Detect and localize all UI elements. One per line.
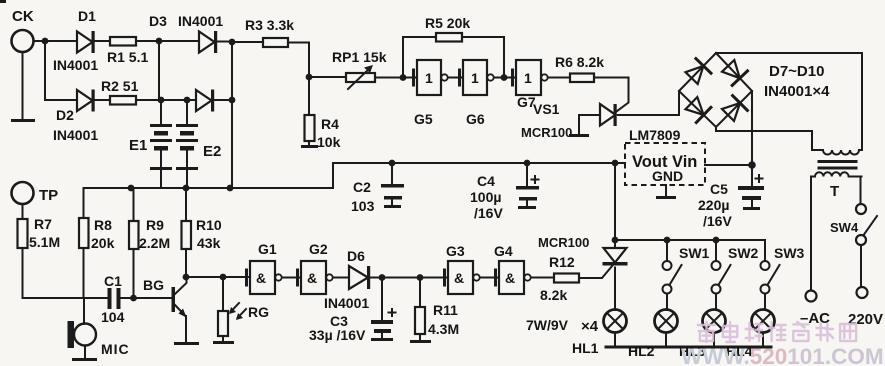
gate G2 [298,261,333,294]
ground bar under RG [213,341,234,344]
svg-text:G5: G5 [414,111,433,127]
svg-text:VS1: VS1 [533,101,560,117]
svg-text:E2: E2 [203,143,221,160]
wire C3 to ground [381,333,383,338]
resistor R7 [18,219,28,248]
svg-text:D6: D6 [347,248,365,264]
resistor R10 [182,221,192,249]
transformer T core [819,162,856,169]
node junction rail x186 [183,185,190,192]
diode D6 [349,266,368,289]
svg-text:CK: CK [12,8,34,25]
node junction rail x230 [227,185,234,192]
wire G2 to D6 [333,277,349,279]
resistor R11 lead [419,278,421,308]
diode D9 bottom-left [686,97,711,123]
node junction G6 output [501,74,508,81]
gate G6 [460,60,494,95]
node junction SW2 [713,237,720,244]
svg-text:R5 20k: R5 20k [425,15,470,31]
svg-text:G4: G4 [494,243,513,259]
svg-text:R10: R10 [196,217,222,233]
svg-text:1: 1 [471,70,479,86]
battery E2 [176,100,198,188]
svg-text:G6: G6 [466,111,485,127]
wire collector to G1 [186,276,250,278]
svg-text:HL1: HL1 [572,340,599,356]
svg-text:&: & [256,270,266,286]
wire supply rail y188 [84,187,334,189]
resistor R9 top lead [133,188,135,221]
svg-text:R1 5.1: R1 5.1 [107,49,148,65]
wire MIC to ground [84,346,86,359]
thyristor VS2 [603,248,628,310]
capacitor C2 [381,184,404,188]
wire D3 to node [218,41,232,43]
capacitor C3 plus sign [389,309,396,316]
svg-text:R9: R9 [146,217,164,233]
regulator U1 LM7809 dashed box [625,143,705,185]
wire D2 to R2 [95,99,110,101]
gate G1 [247,261,282,294]
wire primary right to SW4 [860,177,862,205]
resistor R5 [436,33,462,42]
svg-text:GND: GND [652,168,683,184]
node junction rail x131 [128,185,135,192]
svg-text:SW3: SW3 [774,245,805,261]
svg-text:BG: BG [143,277,164,293]
ground bar under CK [11,119,35,122]
svg-text:10k: 10k [317,134,341,150]
wire R7 down and right to C1 [23,248,109,298]
svg-text:IN4001: IN4001 [324,295,369,311]
resistor R12 [554,274,579,283]
wire D1 to R1 [95,40,110,42]
node junction C3 top [379,274,386,281]
node junction x232 top row [229,39,236,46]
lamp HL1 [604,310,627,348]
ground bar under R11 [410,340,431,343]
wire R4 to ground [308,141,310,145]
watermark chinese [698,322,856,342]
ground bar under LM7809 [656,196,676,199]
wire rail step up to +9V bus [333,163,625,188]
capacitor C3 lead [381,278,383,321]
svg-text:IN4001: IN4001 [53,57,98,73]
gate G7 [513,60,548,95]
bridge diamond wires [679,53,752,127]
resistor R6 [570,74,594,83]
svg-text:43k: 43k [197,235,221,251]
diode D7 top-left [686,59,712,84]
capacitor C4 lead [526,163,528,186]
wire G1 to G2 [282,277,301,279]
battery E1 [150,100,172,188]
node junction R9 bottom [130,295,137,302]
wire TP to R7 [22,205,24,220]
resistor R1 [110,37,136,46]
wire G3 to G4 [480,277,499,279]
wire feedback left leg [403,37,436,78]
svg-text:IN4001: IN4001 [178,13,223,29]
svg-text:×4: ×4 [581,318,599,335]
svg-text:WWW.520101.COM: WWW.520101.COM [681,344,884,366]
svg-text:R12: R12 [549,254,575,270]
wire CK to D1 [34,40,76,42]
svg-text:R2 51: R2 51 [101,78,139,94]
svg-text:SW4: SW4 [830,220,859,235]
svg-text:/16V: /16V [474,205,503,221]
terminal CK [12,30,34,52]
svg-text:E1: E1 [129,137,147,154]
svg-text:R6 8.2k: R6 8.2k [555,54,604,70]
wire RG to ground [222,336,224,341]
svg-text:R7: R7 [34,216,52,232]
wire RP1 to G5 [375,77,416,79]
resistor R8 [79,218,89,248]
diode D8 top-right [722,60,748,85]
transformer T secondary coil [812,150,862,155]
wire D6 to G3 [370,277,448,279]
gate G4 [496,261,531,294]
svg-text:D3: D3 [149,13,167,29]
wire GND pin to ground [665,185,667,196]
transistor BG [172,277,187,342]
wire R3 right then down to RP1 row [288,43,309,78]
svg-text:C1: C1 [104,273,122,289]
resistor R2 [110,96,136,105]
wire C1 to base node [121,297,172,299]
photoresistor RG [218,311,228,336]
wire R1 to node [136,40,159,42]
svg-text:7W/9V: 7W/9V [526,317,569,333]
svg-text:HL2: HL2 [628,343,655,359]
svg-text:104: 104 [101,309,125,325]
node junction bus lamp feed [612,160,619,167]
wire node to R3 [232,41,263,43]
thyristor VS1 [579,104,679,134]
svg-text:2.2M: 2.2M [139,235,170,251]
svg-text:MCR100: MCR100 [538,235,589,250]
wire node down to second row [158,41,160,100]
wire R8 bottom lead [83,248,85,298]
svg-text:100µ: 100µ [470,189,501,205]
capacitor C5 [738,186,764,190]
svg-text:5.1M: 5.1M [29,234,60,250]
capacitor C4 plus sign [532,176,539,183]
wire VS1 cathode up to bridge left vertex [678,91,680,115]
svg-text:IN4001: IN4001 [53,127,98,143]
wire D4 to vertical bus x232 [214,99,232,101]
svg-text:MIC: MIC [101,341,130,357]
wire feedback right leg [462,37,504,78]
resistor R11 [415,307,425,334]
svg-text:R8: R8 [94,217,112,233]
svg-text:R4: R4 [321,116,339,132]
capacitor C1 [108,288,112,309]
capacitor C2 lead [391,163,393,184]
wire R2 to D4 [136,99,196,101]
switch SW1 [663,240,682,310]
resistor R9 [129,221,139,249]
svg-text:RG: RG [248,304,269,320]
wire R6 to VS1 gate [594,78,629,112]
ground bar under MIC [72,358,97,361]
node junction lamp rail left [612,237,619,244]
wire MIC stem [83,298,85,324]
wire bridge bottom vertex to transformer left [716,127,812,150]
wire CK to ground [22,53,24,120]
svg-text:D1: D1 [78,8,96,24]
ground bar under C3 [371,338,393,341]
switch SW4 [856,204,877,287]
svg-text:LM7809: LM7809 [629,127,681,143]
resistor R4 [305,115,315,141]
svg-text:20k: 20k [91,235,115,251]
ground bar under BG emitter [174,342,199,345]
node junction x159 top row [156,38,163,45]
node junction x232 second row [229,97,236,104]
node junction G5 input [400,74,407,81]
ground bar under R4 [301,145,318,148]
svg-text:C5: C5 [710,181,728,197]
svg-text:D2: D2 [56,107,74,123]
diode D1 [77,32,93,53]
ground bar under C2 [384,205,401,208]
wire lamp top rail [615,239,765,241]
photoresistor RG light arrows [229,303,246,320]
svg-text:1: 1 [425,70,433,86]
terminal 220V [857,287,868,298]
resistor R4 lead [308,77,310,115]
svg-text:220V: 220V [848,311,883,328]
node junction E2 top [184,97,191,104]
wire node to D3 [159,40,199,42]
resistor R10 top lead [185,188,187,221]
node junction R11 top [417,274,424,281]
microphone MIC [74,324,96,346]
capacitor C5 plus sign [756,175,763,182]
svg-text:R3 3.3k: R3 3.3k [245,17,294,33]
terminal TP [12,182,34,204]
wire branch down to D2 row [45,41,76,100]
svg-text:8.2k: 8.2k [540,287,567,303]
svg-text:4.3M: 4.3M [428,321,459,337]
svg-text:G1: G1 [258,241,277,257]
gate G5 [414,60,448,95]
lamp HL3 [703,310,726,348]
svg-text:/16V: /16V [703,213,732,229]
node junction E1 top [158,97,165,104]
transformer T primary coil [811,172,862,176]
diode D2 [77,90,93,111]
ground bar under C4 [518,206,536,209]
resistor R9 bottom lead [133,249,135,298]
wire Vin to C5 node [705,164,752,166]
potentiometer RP1 [346,65,375,89]
svg-text:&: & [505,270,515,286]
svg-text:T: T [830,183,839,200]
terminal ~AC [806,291,817,302]
lamp HL4 [752,310,775,348]
svg-text:&: & [307,270,317,286]
svg-text:1: 1 [524,70,532,86]
resistor R3 [263,38,288,47]
wire R12 to thyristor gate [579,266,613,279]
node junction R4/RP1 [306,74,313,81]
node junction BG collector [183,274,190,281]
resistor R8 top lead [83,188,85,218]
wire vertical x232 down to supply rail [231,42,233,188]
lamp HL2 [655,310,678,348]
wire bridge top vertex to transformer right [716,53,862,150]
svg-text:MCR100: MCR100 [521,125,572,140]
node junction at x45 top row [42,38,49,45]
diode D10 bottom-right [722,96,747,121]
svg-text:R11: R11 [433,302,458,318]
wire +9V feed down to thyristor [614,163,616,247]
wire bridge right vertex down to Vin node [751,91,753,186]
switch SW3 [761,240,780,310]
switch SW2 [712,240,731,310]
svg-text:SW1: SW1 [679,245,710,261]
wire G5 to G6 [448,77,463,79]
photoresistor RG lead [222,277,224,311]
scan mark top-left corner [0,0,6,3]
svg-text:G2: G2 [309,241,328,257]
node junction bus C2 [389,160,396,167]
svg-text:TP: TP [39,187,58,204]
capacitor C4 [516,186,539,190]
wire primary left to ~AC terminal [810,177,812,291]
terminal bar VS1 anode [569,134,589,137]
svg-text:&: & [454,270,464,286]
diode D3 [199,32,215,53]
svg-text:D7~D10: D7~D10 [769,63,824,80]
svg-text:C2: C2 [353,179,371,195]
gate G3 [445,261,480,294]
wire R11 to ground [419,334,421,340]
resistor R10 bottom lead [185,249,187,277]
svg-text:C4: C4 [477,173,495,189]
capacitor C3 [371,320,393,324]
svg-text:G3: G3 [446,243,465,259]
node junction SW1 [664,237,671,244]
svg-text:IN4001×4: IN4001×4 [764,83,830,100]
wire G6 to G7 [494,77,516,79]
wire G4 to R12 [531,277,554,279]
wire G7 to R6 [548,77,570,79]
svg-text:SW2: SW2 [728,245,759,261]
diode D4 (second IN4001 beside D3) [196,90,212,111]
node junction bus C4 [524,160,531,167]
wire lamp bottom rail [606,346,771,349]
svg-text:103: 103 [351,198,375,214]
node junction Vin/C5 [748,161,756,169]
node junction RG top [220,274,227,281]
wire node to RP1 [309,76,346,78]
svg-text:220µ: 220µ [698,197,729,213]
ground bar under C5 [743,207,760,210]
svg-text:RP1 15k: RP1 15k [332,49,387,65]
svg-text:33µ /16V: 33µ /16V [309,327,366,343]
